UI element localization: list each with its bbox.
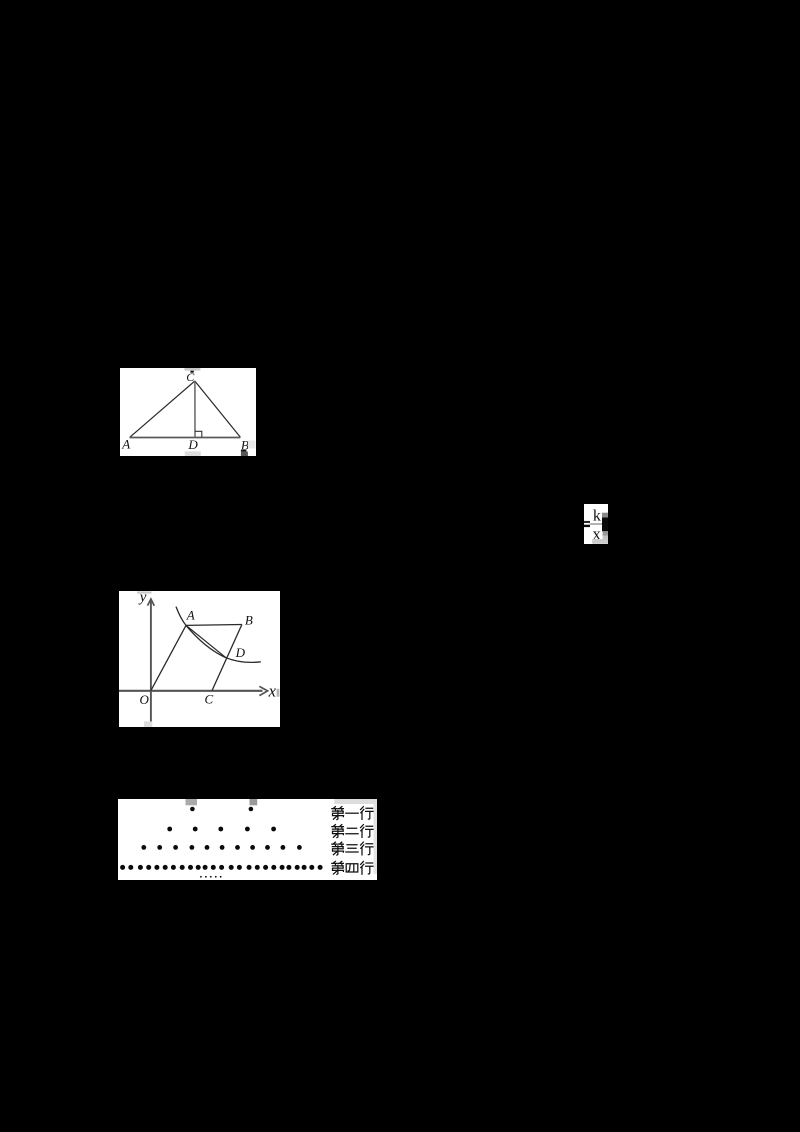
row 1 dots <box>190 807 253 812</box>
light grey patch bottom <box>592 539 608 544</box>
figure 2: coordinate graph, parallelogram OABC and hyperbola <box>119 591 279 727</box>
light grey patch right <box>603 535 608 539</box>
grey band above C <box>184 368 200 371</box>
svg-text:D: D <box>187 436 198 451</box>
svg-text:B: B <box>245 612 253 627</box>
svg-text:y: y <box>138 591 147 605</box>
black patch <box>602 517 608 531</box>
side CA <box>129 381 194 437</box>
grey rect below D <box>184 451 200 456</box>
altitude CD <box>193 381 195 437</box>
row 4 dots <box>120 865 323 870</box>
grey mark top 2 <box>249 799 257 805</box>
dark grey square below B <box>240 451 247 455</box>
row label 第二行 <box>332 825 373 838</box>
y axis <box>150 600 152 721</box>
x axis <box>119 689 263 691</box>
svg-text:C: C <box>186 370 195 384</box>
row 3 dots <box>141 845 301 850</box>
line AB <box>186 623 242 626</box>
dark blob above C <box>190 370 193 372</box>
medium grey patch <box>603 531 608 536</box>
equals sign bar 2 <box>584 524 590 526</box>
light grey band top right <box>334 799 377 804</box>
svg-text:O: O <box>140 692 150 707</box>
svg-text:A: A <box>121 436 130 451</box>
row label 第三行 <box>332 842 373 855</box>
fraction bar <box>590 523 603 524</box>
svg-text:D: D <box>235 645 246 660</box>
base AB <box>129 436 240 438</box>
equals sign bar 1 <box>584 521 590 523</box>
row 2 dots <box>167 827 276 832</box>
light grey patch right of B <box>247 440 255 448</box>
svg-text:C: C <box>205 691 214 706</box>
grey band top <box>137 591 152 593</box>
light grey strip right edge <box>373 804 377 874</box>
line OA <box>151 625 186 690</box>
side CB <box>194 381 240 437</box>
x axis arrowhead <box>260 686 268 695</box>
black bar below B <box>240 449 246 451</box>
svg-text:A: A <box>186 607 195 622</box>
dark grey patch <box>602 512 608 517</box>
y axis arrowhead <box>148 599 155 606</box>
grey sliver right of x <box>277 689 280 697</box>
svg-text:k: k <box>593 507 601 524</box>
right angle mark at D <box>194 431 201 437</box>
chord AD <box>186 625 226 657</box>
line BC <box>212 624 242 690</box>
svg-text:x: x <box>268 681 277 700</box>
grey square bottom of y axis <box>144 721 152 727</box>
figure 3: rows of dots with row labels <box>118 799 377 880</box>
ellipsis mini dots <box>200 876 222 878</box>
grey mark top 1 <box>185 799 197 805</box>
row label 第四行 <box>332 861 373 874</box>
row label 第一行 <box>332 807 373 820</box>
hyperbola curve <box>176 606 261 662</box>
figure 1: triangle ABC with altitude CD <box>120 368 256 457</box>
formula: = k/x fraction <box>584 504 608 545</box>
